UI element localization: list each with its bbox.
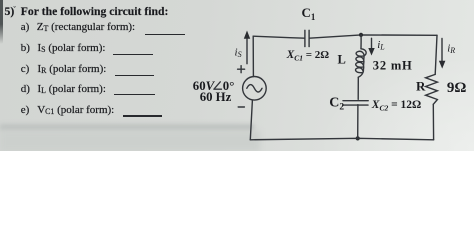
wire: middle branch, coil to C2 <box>357 77 359 99</box>
wire: left branch below source <box>250 100 252 140</box>
resistor R zigzag <box>426 74 438 104</box>
node: bottom junction dot <box>356 136 360 140</box>
photo shading: bottom strip <box>0 131 260 151</box>
title <box>5 6 15 18</box>
svg-text:C2: C2 <box>329 96 344 113</box>
svg-text:R: R <box>416 79 426 94</box>
plus sign of source <box>238 66 245 73</box>
wire: bottom <box>250 138 433 140</box>
item d <box>21 84 30 95</box>
svg-text:iS: iS <box>235 47 242 60</box>
current arrow iR <box>439 39 446 69</box>
svg-text:iR: iR <box>447 43 455 56</box>
AC voltage source circle <box>243 77 267 101</box>
svg-text:9Ω: 9Ω <box>447 80 467 96</box>
current arrow is <box>244 31 250 64</box>
svg-text:C1: C1 <box>302 5 316 22</box>
inductor L coil <box>356 49 367 77</box>
photo shading: left dark edge <box>0 0 3 44</box>
photo shading: bottom-left gray band <box>0 124 254 131</box>
svg-text:XC2 = 12Ω: XC2 = 12Ω <box>371 99 421 112</box>
item e <box>21 105 30 116</box>
node: top junction dot <box>359 33 363 37</box>
capacitor C2 plates <box>343 101 368 105</box>
capacitor C1 plates <box>305 30 309 46</box>
item a <box>21 22 30 33</box>
svg-text:60 Hz: 60 Hz <box>200 90 232 104</box>
svg-text:32 mH: 32 mH <box>373 59 413 73</box>
sine wave inside source <box>247 85 262 92</box>
svg-text:XC1 = 2Ω: XC1 = 2Ω <box>286 49 330 62</box>
photo shading: bottom-right light patch <box>324 61 474 151</box>
item b <box>21 43 30 54</box>
minus sign of source <box>238 106 244 108</box>
wire: top, C1 to right corner <box>309 35 437 38</box>
wire: middle branch, C2 to bottom <box>357 105 359 139</box>
wire: left branch above source <box>252 36 254 76</box>
svg-text:iL: iL <box>377 39 385 52</box>
item c <box>21 64 30 75</box>
current arrow iL <box>368 38 374 55</box>
wire: right branch below resistor <box>432 104 434 140</box>
angle symbol of 60V source phasor <box>214 82 222 89</box>
wire: top, left segment to C1 <box>253 36 305 38</box>
wire: middle branch, junction to coil <box>360 35 362 49</box>
wire: right branch above resistor <box>435 35 437 74</box>
svg-text:L: L <box>338 53 346 67</box>
